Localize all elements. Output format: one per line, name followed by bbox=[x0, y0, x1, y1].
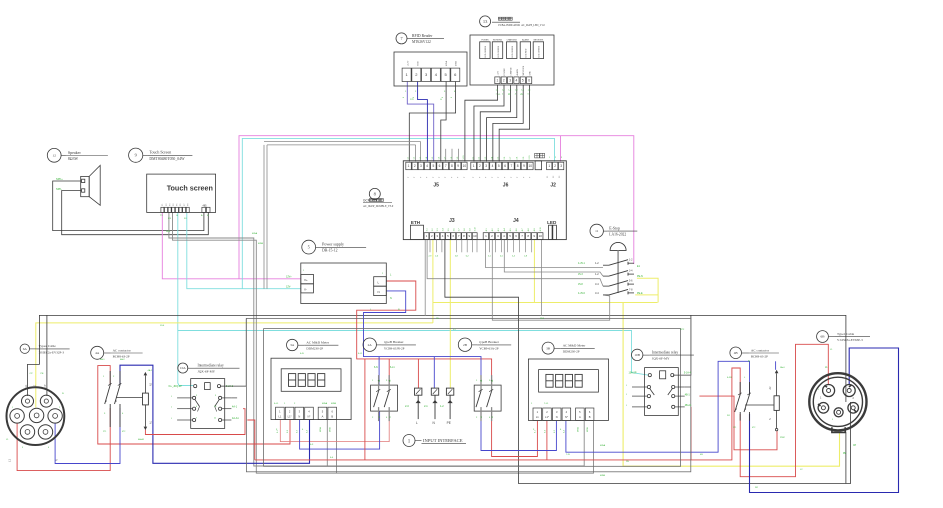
svg-text:AC contactor: AC contactor bbox=[751, 348, 770, 352]
svg-text:PCBA-INDICATOR AC_9GPP_LED_V1: PCBA-INDICATOR AC_9GPP_LED_V1.0 bbox=[498, 24, 545, 27]
svg-text:3-4: 3-4 bbox=[595, 291, 599, 295]
svg-text:4-3: 4-3 bbox=[498, 228, 500, 231]
svg-text:6-L_JDQ-2P: 6-L_JDQ-2P bbox=[169, 385, 183, 388]
svg-text:2-3: 2-3 bbox=[405, 404, 409, 408]
svg-text:L1: L1 bbox=[389, 416, 391, 418]
svg-text:SPK+: SPK+ bbox=[56, 177, 63, 181]
svg-text:4-9: 4-9 bbox=[534, 228, 536, 231]
svg-text:J3: J3 bbox=[449, 218, 455, 224]
svg-text:7-L1: 7-L1 bbox=[544, 403, 549, 405]
svg-text:JQX-6F-MY: JQX-6F-MY bbox=[652, 357, 670, 361]
svg-text:6-N: 6-N bbox=[300, 353, 304, 355]
svg-text:VJ-0S63a-EV63P-3: VJ-0S63a-EV63P-3 bbox=[837, 338, 863, 342]
svg-text:E-Stop: E-Stop bbox=[609, 226, 620, 230]
svg-text:485A: 485A bbox=[600, 444, 606, 447]
svg-text:N1: N1 bbox=[492, 380, 494, 382]
svg-text:1-2: 1-2 bbox=[414, 157, 416, 160]
svg-text:L1*: L1* bbox=[545, 415, 549, 419]
svg-text:N: N bbox=[55, 459, 59, 461]
svg-text:6-N1: 6-N1 bbox=[727, 377, 733, 379]
svg-text:485A: 485A bbox=[322, 402, 328, 405]
svg-text:YCB9-63JN-2P: YCB9-63JN-2P bbox=[384, 346, 405, 350]
svg-text:4T2: 4T2 bbox=[752, 427, 755, 429]
svg-text:2: 2 bbox=[382, 273, 383, 275]
svg-text:1-4: 1-4 bbox=[515, 90, 518, 92]
svg-text:L1: L1 bbox=[492, 416, 494, 418]
svg-text:LED-GREEN: LED-GREEN bbox=[512, 45, 514, 57]
svg-text:Intermediate relay: Intermediate relay bbox=[198, 364, 224, 368]
svg-text:2: 2 bbox=[414, 164, 416, 168]
svg-text:GND: GND bbox=[418, 61, 420, 66]
svg-text:+12V: +12V bbox=[498, 70, 500, 75]
svg-text:DMT80480T050_04W: DMT80480T050_04W bbox=[149, 157, 185, 161]
svg-text:10B: 10B bbox=[634, 353, 640, 357]
svg-text:2-5: 2-5 bbox=[498, 157, 500, 160]
svg-text:1: 1 bbox=[549, 157, 550, 159]
svg-text:PE-N: PE-N bbox=[637, 275, 643, 278]
svg-text:6-L1: 6-L1 bbox=[274, 403, 279, 405]
svg-text:6: 6 bbox=[528, 94, 529, 96]
svg-text:12: 12 bbox=[53, 153, 57, 157]
svg-text:4A-A1: 4A-A1 bbox=[138, 438, 145, 441]
svg-text:Type2 Cable: Type2 Cable bbox=[39, 344, 57, 348]
svg-text:WORKING: WORKING bbox=[493, 39, 503, 41]
svg-text:AC contactor: AC contactor bbox=[113, 348, 132, 352]
svg-text:1-2: 1-2 bbox=[502, 90, 505, 92]
svg-text:3-5: 3-5 bbox=[448, 228, 450, 231]
svg-text:3-4: 3-4 bbox=[443, 228, 445, 231]
svg-text:3: 3 bbox=[508, 94, 509, 96]
svg-text:1: 1 bbox=[303, 270, 304, 272]
svg-text:3-3: 3-3 bbox=[437, 228, 439, 231]
svg-text:CP: CP bbox=[30, 373, 34, 375]
svg-text:485B: 485B bbox=[587, 427, 589, 432]
svg-text:1: 1 bbox=[473, 164, 475, 168]
svg-text:DDM230-2P: DDM230-2P bbox=[563, 350, 580, 354]
svg-text:PE: PE bbox=[447, 421, 451, 425]
svg-text:AC M&D Meter: AC M&D Meter bbox=[563, 344, 586, 348]
svg-text:RFID Reader: RFID Reader bbox=[412, 34, 433, 38]
svg-text:2-4: 2-4 bbox=[491, 157, 493, 160]
svg-text:10: 10 bbox=[539, 234, 543, 238]
svg-text:ETH: ETH bbox=[411, 220, 421, 225]
svg-text:LED: LED bbox=[547, 220, 557, 225]
svg-text:POWER: POWER bbox=[504, 68, 506, 76]
svg-text:AC_9GPP_DOUBLE_V3.0: AC_9GPP_DOUBLE_V3.0 bbox=[363, 205, 394, 208]
svg-text:1: 1 bbox=[496, 94, 497, 96]
svg-text:7: 7 bbox=[511, 164, 513, 168]
svg-text:N1: N1 bbox=[379, 380, 381, 382]
svg-text:AC M&D Meter: AC M&D Meter bbox=[306, 341, 329, 345]
svg-text:485A: 485A bbox=[445, 60, 448, 66]
svg-text:2: 2 bbox=[554, 164, 556, 168]
svg-text:9: 9 bbox=[523, 164, 525, 168]
svg-text:2-9: 2-9 bbox=[523, 157, 525, 160]
svg-text:485B: 485B bbox=[331, 403, 337, 405]
svg-text:JA-4: JA-4 bbox=[780, 366, 785, 369]
svg-text:12V+: 12V+ bbox=[286, 276, 292, 279]
svg-text:10A: 10A bbox=[180, 366, 186, 370]
svg-text:9: 9 bbox=[457, 164, 459, 168]
svg-text:11: 11 bbox=[595, 229, 599, 233]
svg-text:Touch Screen: Touch Screen bbox=[149, 150, 171, 155]
svg-text:4A-1: 4A-1 bbox=[100, 358, 105, 361]
svg-text:12V: 12V bbox=[410, 99, 414, 101]
svg-text:J: J bbox=[626, 385, 627, 387]
svg-text:N1: N1 bbox=[481, 380, 483, 382]
svg-text:4-5: 4-5 bbox=[510, 228, 512, 231]
svg-text:PE: PE bbox=[34, 384, 37, 388]
svg-text:1-2: 1-2 bbox=[440, 404, 444, 408]
svg-text:6: 6 bbox=[442, 97, 444, 98]
svg-text:B: B bbox=[331, 414, 333, 418]
svg-text:SPK: SPK bbox=[166, 231, 171, 233]
svg-text:N: N bbox=[556, 415, 558, 419]
svg-text:10: 10 bbox=[473, 234, 477, 238]
svg-text:1-2: 1-2 bbox=[595, 261, 599, 265]
svg-text:LA16-2022: LA16-2022 bbox=[609, 233, 626, 237]
svg-text:J: J bbox=[626, 394, 627, 396]
svg-text:1-10: 1-10 bbox=[463, 156, 465, 160]
svg-text:3-1: 3-1 bbox=[427, 228, 429, 231]
svg-text:L1: L1 bbox=[481, 416, 483, 418]
svg-text:8: 8 bbox=[451, 164, 453, 168]
svg-text:A: A bbox=[579, 415, 581, 419]
svg-text:DR-15-12: DR-15-12 bbox=[322, 249, 337, 253]
svg-text:1-7: 1-7 bbox=[445, 157, 447, 160]
svg-text:Touch screen: Touch screen bbox=[167, 184, 213, 193]
svg-text:J2: J2 bbox=[550, 182, 556, 188]
svg-text:+12V: +12V bbox=[407, 60, 409, 66]
svg-text:7-N: 7-N bbox=[566, 454, 570, 456]
svg-text:3-6: 3-6 bbox=[453, 228, 455, 231]
svg-text:N1: N1 bbox=[389, 380, 391, 382]
svg-text:10: 10 bbox=[529, 164, 533, 168]
svg-text:N: N bbox=[390, 297, 392, 300]
svg-text:Intermediate relay: Intermediate relay bbox=[652, 350, 678, 354]
svg-text:CHARGE: CHARGE bbox=[509, 67, 512, 76]
svg-text:485A: 485A bbox=[576, 427, 579, 432]
svg-text:4-4: 4-4 bbox=[504, 228, 506, 231]
svg-text:4A-1: 4A-1 bbox=[232, 406, 238, 409]
svg-text:6: 6 bbox=[528, 78, 530, 82]
svg-text:9: 9 bbox=[135, 153, 137, 158]
svg-text:J: J bbox=[626, 405, 627, 407]
svg-text:S3: S3 bbox=[559, 176, 561, 178]
svg-text:LED-GREEN: LED-GREEN bbox=[539, 45, 541, 57]
svg-text:4-J5-6: 4-J5-6 bbox=[578, 292, 585, 295]
svg-text:1-4: 1-4 bbox=[426, 157, 428, 160]
svg-text:GND: GND bbox=[530, 71, 532, 76]
svg-text:S2: S2 bbox=[553, 176, 555, 178]
svg-text:4T2: 4T2 bbox=[122, 431, 125, 433]
svg-text:4-10: 4-10 bbox=[540, 227, 542, 231]
svg-text:2-2: 2-2 bbox=[479, 157, 481, 160]
svg-text:6-N: 6-N bbox=[374, 367, 378, 369]
svg-text:J: J bbox=[171, 396, 172, 398]
svg-text:4: 4 bbox=[426, 164, 428, 168]
svg-text:5: 5 bbox=[832, 419, 833, 421]
svg-text:3-8: 3-8 bbox=[464, 228, 466, 231]
svg-text:2: 2 bbox=[59, 407, 60, 409]
svg-text:6A: 6A bbox=[23, 347, 28, 351]
svg-text:5-JA-4: 5-JA-4 bbox=[684, 372, 692, 375]
svg-text:3-2: 3-2 bbox=[432, 228, 434, 231]
svg-text:4: 4 bbox=[515, 94, 516, 96]
svg-text:N*: N* bbox=[308, 414, 311, 418]
svg-text:NETWORK: NETWORK bbox=[523, 65, 525, 75]
svg-text:5: 5 bbox=[522, 78, 524, 82]
svg-text:5: 5 bbox=[432, 164, 434, 168]
svg-text:N: N bbox=[851, 376, 854, 378]
svg-text:1-3: 1-3 bbox=[420, 157, 422, 160]
svg-text:LED-GREEN: LED-GREEN bbox=[485, 45, 487, 57]
svg-text:N: N bbox=[769, 418, 772, 420]
svg-text:2-1: 2-1 bbox=[424, 404, 428, 408]
svg-text:7: 7 bbox=[445, 164, 447, 168]
svg-text:2-6: 2-6 bbox=[504, 157, 506, 160]
svg-text:ALARM: ALARM bbox=[516, 69, 519, 76]
svg-text:J4: J4 bbox=[513, 218, 519, 224]
svg-text:CP: CP bbox=[853, 445, 857, 447]
svg-text:5: 5 bbox=[521, 94, 522, 96]
svg-text:4-1: 4-1 bbox=[486, 228, 488, 231]
svg-text:4A: 4A bbox=[95, 351, 100, 355]
svg-text:485A: 485A bbox=[319, 427, 322, 432]
svg-text:4B-1: 4B-1 bbox=[685, 393, 691, 396]
svg-text:PE: PE bbox=[843, 453, 847, 455]
svg-text:CHARGING: CHARGING bbox=[507, 38, 518, 41]
svg-text:4-J5-1: 4-J5-1 bbox=[578, 262, 585, 265]
svg-text:1-2: 1-2 bbox=[595, 272, 599, 276]
svg-text:V-: V- bbox=[304, 287, 307, 291]
svg-text:LED-GREEN: LED-GREEN bbox=[498, 45, 500, 57]
svg-text:2-3: 2-3 bbox=[485, 157, 487, 160]
svg-text:Speaker: Speaker bbox=[68, 150, 82, 155]
svg-text:SPK-: SPK- bbox=[56, 187, 62, 191]
svg-text:J: J bbox=[171, 418, 172, 420]
svg-text:ALARM: ALARM bbox=[522, 38, 529, 41]
svg-text:L1: L1 bbox=[379, 416, 381, 418]
svg-text:1-6: 1-6 bbox=[528, 90, 531, 92]
svg-text:1: 1 bbox=[408, 164, 410, 168]
svg-text:J5: J5 bbox=[433, 182, 439, 188]
svg-text:J5-3: J5-3 bbox=[578, 273, 583, 276]
svg-text:JQX-6F-MY: JQX-6F-MY bbox=[198, 370, 216, 374]
svg-text:485B: 485B bbox=[258, 243, 264, 245]
svg-text:2: 2 bbox=[503, 78, 505, 82]
svg-text:4A-2: 4A-2 bbox=[120, 358, 125, 361]
svg-text:8Ω3W: 8Ω3W bbox=[68, 157, 79, 161]
svg-text:5: 5 bbox=[308, 245, 310, 250]
svg-text:485B: 485B bbox=[600, 475, 606, 477]
svg-text:1-8: 1-8 bbox=[451, 157, 453, 160]
svg-text:2: 2 bbox=[502, 94, 503, 96]
svg-text:6-L1: 6-L1 bbox=[358, 353, 363, 355]
svg-text:J: J bbox=[171, 407, 172, 409]
svg-text:4: 4 bbox=[48, 447, 49, 449]
svg-text:3-4: 3-4 bbox=[595, 282, 599, 286]
svg-text:1-1: 1-1 bbox=[496, 90, 499, 92]
svg-text:1: 1 bbox=[818, 389, 819, 391]
svg-text:2-7: 2-7 bbox=[510, 157, 512, 160]
svg-text:3-10: 3-10 bbox=[475, 227, 477, 231]
svg-text:3: 3 bbox=[561, 157, 562, 159]
svg-text:2: 2 bbox=[479, 164, 481, 168]
svg-text:2: 2 bbox=[855, 389, 856, 391]
svg-text:RX: RX bbox=[168, 218, 172, 220]
svg-text:4-2: 4-2 bbox=[492, 228, 494, 231]
svg-text:N*: N* bbox=[565, 415, 568, 419]
svg-text:PWC: PWC bbox=[780, 437, 786, 439]
svg-text:4-6: 4-6 bbox=[516, 228, 518, 231]
svg-text:2-1: 2-1 bbox=[472, 157, 474, 160]
svg-text:6: 6 bbox=[504, 164, 506, 168]
svg-text:1-9: 1-9 bbox=[457, 157, 459, 160]
svg-text:POWER: POWER bbox=[481, 39, 489, 41]
svg-text:2-10: 2-10 bbox=[529, 156, 531, 160]
svg-text:BCH8-63-2P: BCH8-63-2P bbox=[751, 354, 768, 358]
svg-text:7: 7 bbox=[400, 36, 402, 41]
svg-text:1-6: 1-6 bbox=[438, 157, 440, 160]
svg-text:V+: V+ bbox=[304, 278, 308, 282]
svg-text:4A-1: 4A-1 bbox=[148, 369, 153, 372]
svg-text:L: L bbox=[416, 421, 418, 425]
svg-text:5: 5 bbox=[498, 164, 500, 168]
svg-text:8: 8 bbox=[517, 164, 519, 168]
svg-text:6-L1: 6-L1 bbox=[390, 367, 395, 369]
svg-text:3: 3 bbox=[420, 164, 422, 168]
svg-text:3-7: 3-7 bbox=[459, 228, 461, 231]
svg-text:485B: 485B bbox=[456, 60, 458, 66]
svg-text:Type1 Cable: Type1 Cable bbox=[837, 332, 855, 336]
svg-text:1: 1 bbox=[497, 78, 499, 82]
svg-text:3: 3 bbox=[560, 164, 562, 168]
svg-text:LED-RED: LED-RED bbox=[526, 48, 528, 57]
svg-text:L1*: L1* bbox=[288, 414, 292, 418]
svg-text:4-8: 4-8 bbox=[528, 228, 530, 231]
svg-text:DSIEC2a-EV32P-3: DSIEC2a-EV32P-3 bbox=[39, 350, 65, 354]
svg-text:N: N bbox=[378, 290, 380, 294]
svg-text:INPUT INTERFACE: INPUT INTERFACE bbox=[423, 438, 463, 443]
svg-text:1: 1 bbox=[12, 407, 13, 409]
svg-text:6: 6 bbox=[413, 97, 415, 98]
svg-text:10: 10 bbox=[463, 164, 467, 168]
svg-text:B: B bbox=[589, 415, 591, 419]
svg-text:DDM230-2P: DDM230-2P bbox=[306, 347, 323, 351]
svg-text:485B: 485B bbox=[330, 427, 332, 432]
svg-text:3: 3 bbox=[509, 78, 511, 82]
svg-text:4: 4 bbox=[492, 164, 494, 168]
svg-text:1-5: 1-5 bbox=[432, 157, 434, 160]
svg-text:typeB Breaker: typeB Breaker bbox=[479, 340, 500, 344]
svg-text:A: A bbox=[322, 414, 324, 418]
svg-text:J6: J6 bbox=[503, 182, 509, 188]
svg-text:typeB Breaker: typeB Breaker bbox=[384, 340, 405, 344]
svg-text:NETWORK: NETWORK bbox=[534, 39, 544, 41]
svg-text:3: 3 bbox=[22, 447, 23, 449]
svg-text:MT626V122: MT626V122 bbox=[412, 40, 431, 44]
svg-text:G: G bbox=[176, 215, 178, 217]
svg-text:PP: PP bbox=[25, 384, 28, 388]
svg-text:1: 1 bbox=[548, 164, 550, 168]
svg-text:Power supply: Power supply bbox=[322, 242, 344, 247]
svg-text:3-9: 3-9 bbox=[469, 228, 471, 231]
svg-text:485A: 485A bbox=[252, 232, 258, 235]
svg-text:3: 3 bbox=[485, 164, 487, 168]
svg-text:2T1: 2T1 bbox=[733, 427, 736, 429]
svg-text:3A: 3A bbox=[290, 343, 295, 347]
svg-text:13: 13 bbox=[483, 19, 488, 24]
svg-text:4-7: 4-7 bbox=[522, 228, 524, 231]
svg-text:4A-A1: 4A-A1 bbox=[232, 417, 239, 420]
svg-text:G: G bbox=[440, 99, 442, 101]
svg-text:N: N bbox=[298, 414, 300, 418]
svg-text:1-3: 1-3 bbox=[508, 90, 511, 92]
svg-text:1-5: 1-5 bbox=[521, 90, 524, 92]
svg-text:12V-: 12V- bbox=[286, 286, 291, 289]
svg-text:2T1: 2T1 bbox=[103, 431, 106, 433]
svg-text:6: 6 bbox=[439, 164, 441, 168]
svg-text:10A-2P: 10A-2P bbox=[629, 372, 637, 375]
svg-text:YCB9-63A-2P: YCB9-63A-2P bbox=[479, 346, 499, 350]
svg-text:S1: S1 bbox=[547, 176, 549, 178]
svg-text:J5-8: J5-8 bbox=[578, 283, 583, 286]
svg-text:2: 2 bbox=[555, 157, 556, 159]
svg-text:CP: CP bbox=[44, 384, 47, 388]
svg-text:2A: 2A bbox=[368, 343, 373, 347]
svg-text:6: 6 bbox=[451, 97, 453, 98]
svg-text:BCH8-63-2P: BCH8-63-2P bbox=[113, 354, 130, 358]
svg-text:1-1: 1-1 bbox=[407, 157, 409, 160]
svg-text:4B-A1: 4B-A1 bbox=[685, 404, 692, 407]
svg-text:2-8: 2-8 bbox=[517, 157, 519, 160]
svg-text:PE-E: PE-E bbox=[637, 292, 643, 295]
svg-text:6: 6 bbox=[403, 97, 405, 98]
svg-text:485: 485 bbox=[203, 204, 208, 207]
svg-text:4: 4 bbox=[516, 78, 518, 82]
